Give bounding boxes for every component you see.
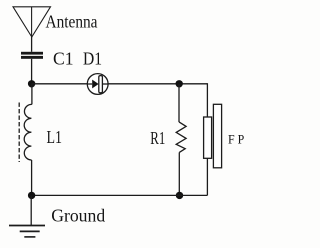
wire top horizontal xyxy=(32,83,208,85)
inductor L1 xyxy=(19,103,32,163)
node A junction dot xyxy=(28,80,35,87)
wire antenna to capacitor xyxy=(31,37,33,52)
resistor R1 xyxy=(176,122,186,152)
svg-text:Ground: Ground xyxy=(51,206,105,226)
node D junction dot xyxy=(28,192,35,199)
earphone E.P xyxy=(204,104,222,168)
ground xyxy=(9,226,45,237)
wire capacitor to node A xyxy=(31,59,33,84)
wire earphone down leg xyxy=(206,158,208,195)
wire node D to ground xyxy=(30,195,32,225)
wire inductor to node D xyxy=(31,160,33,195)
svg-text:C1: C1 xyxy=(53,49,74,69)
svg-text:D1: D1 xyxy=(83,49,102,69)
wire corner down to earphone xyxy=(206,83,208,117)
svg-text:R1: R1 xyxy=(150,128,165,148)
antenna xyxy=(13,7,51,37)
svg-text:F P: F P xyxy=(228,133,244,147)
node C junction dot xyxy=(176,192,183,199)
diode D1 xyxy=(87,74,108,95)
wire bottom horizontal xyxy=(32,194,208,196)
wire resistor to node C xyxy=(178,152,180,195)
svg-text:Antenna: Antenna xyxy=(46,12,98,32)
wire node B down to resistor xyxy=(178,84,180,122)
svg-text:L1: L1 xyxy=(47,127,63,147)
node B junction dot xyxy=(176,80,183,87)
capacitor C1 xyxy=(21,52,43,59)
wire node A down to inductor xyxy=(31,84,33,105)
